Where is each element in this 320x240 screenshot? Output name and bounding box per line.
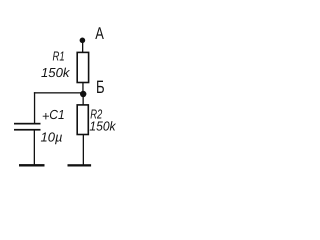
node A bbox=[80, 38, 86, 44]
wire R2 to ground bbox=[83, 135, 84, 165]
wire node B to C1 (horizontal) bbox=[34, 92, 83, 93]
wire R1 to node B bbox=[82, 83, 83, 95]
svg-text:C1: C1 bbox=[49, 107, 64, 122]
capacitor C1 bottom plate bbox=[14, 129, 41, 131]
ground (right) bbox=[68, 164, 92, 166]
resistor R2 bbox=[77, 105, 88, 135]
wire C1 to ground bbox=[34, 130, 35, 165]
capacitor C1 top plate bbox=[14, 123, 41, 125]
svg-text:A: A bbox=[95, 24, 104, 43]
wire node B to R2 bbox=[83, 94, 84, 105]
svg-text:150k: 150k bbox=[41, 65, 71, 80]
svg-text:R1: R1 bbox=[53, 49, 65, 64]
svg-text:150k: 150k bbox=[89, 118, 117, 133]
node B (junction dot) bbox=[80, 91, 86, 97]
wire down to C1 top plate bbox=[34, 92, 35, 123]
ground (left) bbox=[19, 164, 45, 166]
svg-text:10µ: 10µ bbox=[41, 129, 63, 144]
wire A to R1 bbox=[82, 40, 83, 53]
svg-text:Б: Б bbox=[96, 77, 105, 97]
resistor R1 bbox=[77, 52, 88, 82]
